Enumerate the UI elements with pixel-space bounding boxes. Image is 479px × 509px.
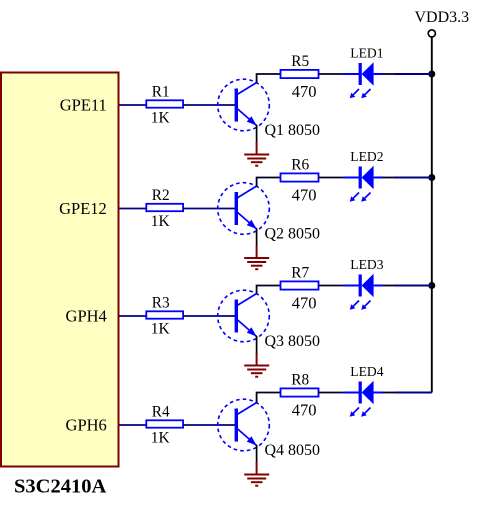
svg-text:GPH6: GPH6 [66,416,107,435]
resistor R3 [146,311,183,318]
svg-text:Q2 8050: Q2 8050 [265,225,321,242]
wire LED2 to VDD rail [374,177,383,179]
svg-text:LED4: LED4 [350,364,383,379]
svg-text:1K: 1K [151,109,171,126]
svg-text:GPE12: GPE12 [59,199,107,218]
LED4 diode [359,381,374,405]
wire GPE12 pin to R2 [119,208,147,210]
wire LED1 to VDD rail [374,73,383,75]
wire R3 to Q3 base [183,315,236,317]
wire R2 to Q2 base [183,208,236,210]
svg-text:R8: R8 [291,371,309,388]
ground symbol GND4 [244,462,269,486]
resistor R4 [146,420,183,427]
wire Q2 collector to R6 [257,178,282,187]
svg-text:R2: R2 [152,187,170,204]
resistor R5 [281,70,319,78]
LED2 diode [359,166,374,190]
svg-text:Q1 8050: Q1 8050 [265,122,321,139]
svg-text:S3C2410A: S3C2410A [14,476,106,498]
wire Q2 emitter to ground [256,229,258,247]
svg-text:LED2: LED2 [350,149,383,164]
transistor Q4 8050 NPN [218,399,270,451]
svg-text:R7: R7 [291,264,309,281]
svg-text:1K: 1K [151,429,171,446]
junction node LED3/VDD rail [428,282,435,289]
resistor R1 [146,100,183,107]
wire Q1 collector to R5 [257,74,282,83]
transistor Q2 8050 NPN [218,183,270,235]
wire R8 to LED4 [319,392,345,394]
wire Q4 emitter to ground [256,445,258,463]
LED3 diode [359,274,374,298]
wire GPE11 pin to R1 [119,104,147,106]
wire Q3 emitter to ground [256,336,258,354]
resistor R8 [281,388,319,396]
IC U? S3C2410A box [1,73,119,467]
svg-text:LED3: LED3 [350,257,383,272]
wire LED4 to VDD rail [374,392,383,394]
svg-text:R5: R5 [291,53,309,70]
junction node LED2/VDD rail [428,174,435,181]
svg-text:R4: R4 [152,404,170,421]
transistor Q3 8050 NPN [218,290,270,342]
svg-text:LED1: LED1 [350,46,383,61]
LED1 emission arrows [350,89,371,98]
wire R5 to LED1 [319,73,345,75]
LED1 diode [359,62,374,86]
wire Q4 collector to R8 [257,393,282,404]
ground symbol GND1 [244,142,269,166]
ground symbol GND3 [244,353,269,377]
wire R7 to LED3 [319,285,345,287]
wire GPH4 pin to R3 [119,315,147,317]
LED2 emission arrows [350,193,371,202]
svg-text:1K: 1K [151,320,171,337]
wire Q3 collector to R7 [257,286,282,295]
svg-text:R6: R6 [291,156,309,173]
wire R6 to LED2 [319,177,345,179]
svg-text:VDD3.3: VDD3.3 [415,9,470,26]
wire R1 to Q1 base [183,104,236,106]
svg-text:470: 470 [292,294,317,313]
wire Q1 emitter to ground [256,125,258,143]
wire VDD3.3 vertical rail [431,37,433,393]
junction node LED1/VDD rail [428,71,435,78]
resistor R7 [281,281,319,289]
ground symbol GND2 [244,246,269,270]
resistor R6 [281,173,319,181]
svg-text:GPE11: GPE11 [60,96,107,115]
wire R4 to Q4 base [183,424,236,426]
svg-text:470: 470 [292,401,317,420]
transistor Q1 8050 NPN [218,79,270,131]
svg-text:Q4 8050: Q4 8050 [265,442,321,459]
svg-text:470: 470 [292,186,317,205]
svg-text:Q3 8050: Q3 8050 [265,333,321,350]
svg-text:GPH4: GPH4 [66,307,107,326]
wire LED3 to VDD rail [374,285,383,287]
svg-text:470: 470 [292,82,317,101]
resistor R2 [146,204,183,211]
LED3 emission arrows [350,301,371,310]
svg-text:R3: R3 [152,295,170,312]
svg-text:R1: R1 [152,84,170,101]
svg-text:1K: 1K [151,213,171,230]
LED4 emission arrows [350,408,371,417]
wire GPH6 pin to R4 [119,424,147,426]
